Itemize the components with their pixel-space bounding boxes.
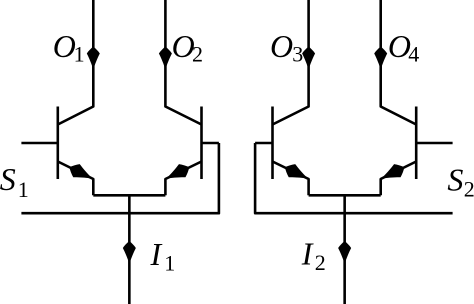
svg-text:1: 1	[164, 250, 175, 275]
arrow: Q2 emitter	[162, 161, 192, 186]
svg-text:I: I	[150, 236, 163, 272]
svg-text:S: S	[0, 161, 16, 197]
svg-text:I: I	[301, 236, 314, 272]
wire: Q4 emitter	[381, 162, 417, 196]
wire: tail current I1	[128, 195, 131, 304]
transistor Q4 base bar	[415, 107, 418, 180]
transistor Q3 base bar	[271, 107, 274, 180]
svg-text:2: 2	[192, 42, 203, 67]
arrow: O3 current	[302, 47, 315, 71]
wire: Q4 collector to O4	[381, 0, 417, 125]
arrow: Q1 emitter	[66, 161, 96, 186]
wire: Q3 collector to O3	[273, 0, 309, 125]
wire: Q4 base lead to S2	[416, 142, 452, 145]
wire: Q1 emitter	[58, 162, 94, 196]
transistor Q1 base bar	[56, 107, 59, 180]
wire: Q1 base lead from S1	[21, 142, 57, 145]
arrow: Q3 emitter	[282, 161, 312, 186]
wire: emitter join right pair	[309, 194, 381, 197]
svg-text:O: O	[270, 28, 293, 64]
wire: S1 lower rail	[21, 143, 219, 213]
wire: Q3 emitter	[273, 162, 309, 196]
transistor Q2 base bar	[200, 107, 203, 180]
svg-text:3: 3	[292, 42, 303, 67]
arrow: I1 tail	[123, 241, 136, 265]
svg-text:1: 1	[74, 42, 85, 67]
svg-text:2: 2	[464, 177, 474, 202]
arrow: I2 tail	[338, 241, 351, 265]
svg-text:S: S	[447, 161, 463, 197]
arrow: O4 current	[374, 47, 387, 71]
wire: Q3 base lead	[255, 142, 272, 145]
svg-text:O: O	[53, 28, 76, 64]
wire: Q2 base lead	[202, 142, 219, 145]
wire: Q2 collector to O2	[165, 0, 201, 125]
wire: tail current I2	[343, 195, 346, 304]
svg-text:2: 2	[315, 250, 326, 275]
wire: S2 lower rail	[255, 143, 453, 213]
arrow: Q4 emitter	[377, 161, 407, 186]
svg-text:1: 1	[18, 177, 29, 202]
wire: Q1 collector to O1	[58, 0, 94, 125]
wire: Q2 emitter	[165, 162, 201, 196]
svg-text:4: 4	[408, 42, 419, 67]
wire: emitter join left pair	[93, 194, 165, 197]
arrow: O2 current	[159, 47, 172, 71]
arrow: O1 current	[87, 47, 100, 71]
